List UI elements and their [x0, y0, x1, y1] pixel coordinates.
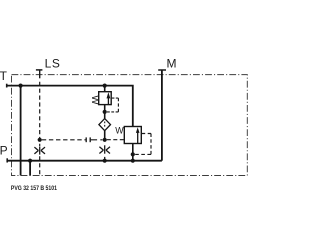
node: bleed to pump rail: [103, 159, 107, 163]
break tick left: [85, 137, 87, 142]
relief valve flow arrow: [107, 98, 109, 105]
compensator pilot line (dashed): [135, 134, 151, 155]
wire: rail to relief valve inlet: [104, 86, 106, 92]
wire: LS port stub: [39, 70, 41, 78]
LS gallery dashed wire (left part): [42, 139, 86, 141]
svg-text:T: T: [0, 69, 8, 83]
wire: compensator outlet to pump rail: [132, 144, 134, 161]
compensator flow arrow: [137, 132, 139, 143]
wire: filter to LS gallery node: [104, 131, 106, 140]
filter: [99, 119, 111, 131]
wire: LS pilot line (dashed, lower span): [39, 156, 41, 175]
svg-text:W: W: [89, 95, 100, 105]
relief valve body: [99, 92, 112, 105]
node: tank rail / tank gallery junction: [19, 84, 23, 88]
port M tick: [158, 69, 166, 71]
port P tick: [6, 158, 8, 162]
node: LS line / LS gallery junction: [38, 138, 42, 142]
wire: M measuring line down to pump rail elbow: [161, 71, 163, 161]
svg-text:LS: LS: [45, 57, 61, 71]
svg-text:PVG 32 157 B 5101: PVG 32 157 B 5101: [11, 185, 58, 192]
port T tick: [6, 84, 8, 88]
node: bleed line junction: [103, 138, 107, 142]
wire: pump rail from port P to M elbow: [7, 160, 162, 162]
wire: pump gallery down to section interface: [29, 161, 31, 176]
node: pilot return junction: [103, 110, 107, 114]
plug symbol on pump-LS bleed: [99, 145, 110, 153]
wire: tank rail from port T to compensator inlet elbow: [7, 86, 133, 127]
svg-text:W: W: [115, 125, 124, 135]
relief valve pilot line (dashed): [107, 98, 118, 112]
wire: tick to bleed node: [90, 139, 102, 141]
wire: tank gallery down to section interface: [20, 86, 22, 176]
break tick right: [89, 137, 91, 142]
node: pump rail / pump gallery junction: [28, 159, 32, 163]
node: compensator pilot junction: [131, 152, 135, 156]
port LS tick: [36, 69, 43, 71]
wire: relief valve outlet to filter: [104, 105, 106, 119]
node: compensator on pump rail: [131, 159, 135, 163]
wire: bleed stubs: [104, 140, 106, 161]
wire: LS pilot line (dashed, upper span): [39, 82, 41, 146]
plug symbol on LS line: [34, 146, 45, 154]
enclosure frame (valve block outline): [12, 75, 248, 176]
svg-text:P: P: [0, 143, 8, 157]
pressure compensator body: [124, 127, 141, 144]
node: tank rail to relief valve: [103, 84, 107, 88]
wire: bleed node to compensator spring side (dashed): [107, 139, 125, 141]
svg-text:M: M: [167, 56, 177, 70]
